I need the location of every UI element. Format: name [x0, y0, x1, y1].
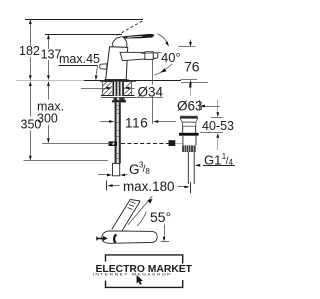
rotated lever — [112, 199, 140, 231]
waste seal band — [179, 133, 199, 136]
svg-text:40°: 40° — [161, 50, 181, 65]
svg-text:300: 300 — [37, 112, 58, 126]
aerator end cap — [153, 53, 158, 59]
svg-text:G: G — [129, 162, 140, 177]
dim 350 — [29, 81, 32, 86]
aerator — [145, 52, 153, 60]
dim 116 — [109, 120, 158, 123]
svg-text:76: 76 — [184, 59, 200, 75]
cursor — [137, 275, 143, 285]
mounting deck reference line (light, left) — [16, 80, 84, 82]
supply rod — [115, 102, 121, 163]
label G1 1/4 — [195, 164, 200, 167]
55deg bottom tick — [161, 241, 170, 243]
interior cartridge arc — [114, 235, 116, 243]
extension line (137 reference) — [45, 34, 122, 36]
waste neck — [182, 122, 195, 126]
washer — [112, 100, 126, 102]
handle lever solid — [121, 34, 155, 39]
waste deck reference line — [181, 82, 208, 84]
svg-text:116: 116 — [125, 116, 148, 131]
svg-text:I N T E R N E T · M E G A S H: I N T E R N E T · M E G A S H O P — [93, 272, 172, 276]
svg-text:40-53: 40-53 — [202, 119, 234, 133]
svg-text:G1: G1 — [204, 152, 221, 167]
dim 40-53 — [211, 117, 223, 119]
waste tailpipe — [188, 152, 194, 184]
lever tip hatch — [128, 202, 136, 210]
linkage tee fitting — [109, 141, 118, 146]
G3/8 tube end — [113, 163, 120, 175]
waste up arrow — [189, 83, 192, 88]
dashed linkage — [121, 143, 169, 145]
faucet body — [106, 47, 128, 80]
extension line top (182 reference) — [25, 19, 143, 21]
body base band — [104, 79, 129, 81]
spout — [120, 52, 145, 60]
deck bottom lines — [101, 95, 136, 97]
55deg ray — [128, 196, 152, 225]
waste body upper — [183, 126, 196, 133]
dim 76 bottom — [181, 79, 198, 81]
left knob (pull rod) — [100, 64, 107, 69]
locknut — [114, 98, 125, 101]
waste knurled nut — [182, 145, 196, 152]
dim 137 — [47, 34, 50, 39]
Ø34 arrows — [107, 87, 130, 90]
dim 76 top — [178, 46, 196, 48]
dim 182 — [29, 19, 32, 24]
top view body — [102, 231, 157, 243]
deck hatch right patch — [124, 82, 131, 96]
svg-text:8: 8 — [145, 167, 150, 176]
max.300 reference line — [42, 143, 113, 145]
svg-text:max.45: max.45 — [59, 52, 100, 66]
spout tip extension line — [152, 60, 154, 124]
threaded shank — [113, 82, 124, 96]
waste body mid — [183, 136, 196, 146]
svg-text:55°: 55° — [150, 209, 171, 225]
dashed raised lever — [117, 20, 144, 35]
deck top line — [84, 80, 181, 82]
dim max.300 — [47, 81, 50, 86]
40 degree upper arc arrow — [158, 34, 167, 42]
svg-text:max.180: max.180 — [123, 179, 175, 194]
40 degree lower arc arrow — [155, 64, 173, 75]
350 reference line — [24, 160, 109, 162]
pull knob left — [97, 238, 104, 240]
55deg arc — [137, 212, 146, 227]
ray arrowhead — [147, 199, 152, 204]
svg-text:Ø63: Ø63 — [177, 98, 203, 113]
40 degree leader line — [141, 53, 162, 54]
svg-text:182: 182 — [19, 44, 40, 58]
G3/8 arrows — [107, 174, 112, 177]
deck hatch left patch — [102, 82, 112, 96]
lever cap / dome — [113, 37, 127, 49]
label Ø34 — [135, 85, 162, 97]
linkage clevis — [169, 140, 176, 146]
waste flange — [180, 116, 198, 119]
svg-text:4: 4 — [229, 158, 234, 167]
